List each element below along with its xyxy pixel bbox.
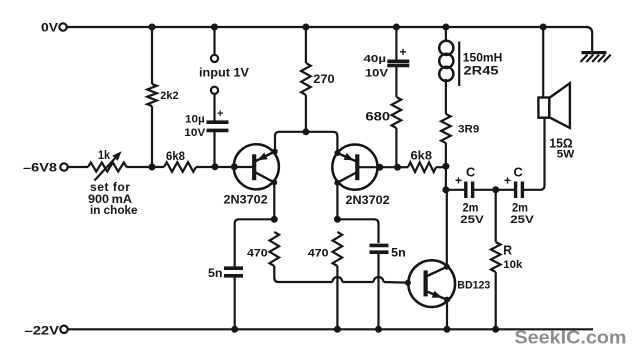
junction -22V at R5 <box>334 326 341 333</box>
wire R2 to base node <box>196 166 253 168</box>
svg-text:0V: 0V <box>41 21 58 35</box>
svg-text:2N3702: 2N3702 <box>346 193 390 207</box>
resistor R4 470 <box>270 232 280 266</box>
junction on 0V rail at choke <box>442 24 449 31</box>
wire choke top <box>445 27 447 42</box>
wire R4 to feedback line <box>274 266 332 282</box>
wire 0V rail <box>67 26 589 28</box>
svg-text:2R45: 2R45 <box>464 64 499 78</box>
junction on 0V rail at 2k2 <box>149 24 156 31</box>
svg-text:input 1V: input 1V <box>199 66 250 80</box>
resistor R5 470 <box>333 232 343 266</box>
wire to C6 <box>446 189 465 191</box>
capacitor C1 40u plates <box>387 59 409 63</box>
svg-text:BD123: BD123 <box>457 279 490 291</box>
resistor R7 6k8 <box>408 162 436 172</box>
speaker LS1 <box>538 83 570 128</box>
svg-text:270: 270 <box>313 72 335 86</box>
junction -22V at Q3 emitter <box>444 326 451 333</box>
wire C5 to -22V rail <box>377 252 379 329</box>
capacitor C5 5n plates <box>370 244 389 248</box>
wire 680 bottom <box>395 128 397 167</box>
svg-text:470: 470 <box>308 248 329 260</box>
wire mid junction to R9 <box>495 190 497 242</box>
wire input to C2 <box>213 94 215 121</box>
wire C4 to -22V rail <box>234 276 236 330</box>
resistor R3 270 <box>301 63 311 95</box>
svg-text:680: 680 <box>365 112 390 124</box>
wire rail to ground <box>586 27 592 52</box>
wire node to 5n right corner <box>337 219 378 243</box>
wire hop over C5 <box>374 277 384 282</box>
svg-text:in choke: in choke <box>90 203 138 217</box>
svg-text:2m: 2m <box>512 203 528 215</box>
wire R7 to choke line <box>436 166 446 168</box>
svg-text:SeekIC.com: SeekIC.com <box>515 327 627 348</box>
wire choke to 3R9 <box>445 79 447 114</box>
svg-text:6k8: 6k8 <box>166 151 186 163</box>
inductor L1 coil <box>439 41 453 81</box>
wire -6V8 to pot <box>68 166 89 168</box>
junction caps line mid <box>492 186 499 193</box>
wire between hops <box>342 281 373 283</box>
svg-text:+: + <box>504 174 511 188</box>
resistor R8 3R9 <box>441 114 451 143</box>
svg-text:C: C <box>466 164 476 179</box>
wire node to 5n corner <box>235 219 275 266</box>
junction on 0V rail at input <box>211 24 218 31</box>
wire 40u top <box>395 27 397 60</box>
junction emitter bar / 270 <box>302 128 309 135</box>
wire pot to junction <box>127 166 153 168</box>
input terminal lower <box>211 87 218 94</box>
svg-text:10V: 10V <box>184 127 206 139</box>
svg-text:–6V8: –6V8 <box>23 163 58 175</box>
wire R9 to -22V rail <box>495 272 497 329</box>
transistor Q3 BD123 <box>405 260 455 307</box>
potentiometer VR1 1k <box>88 163 127 172</box>
junction C2/base node <box>212 163 219 170</box>
wire Q2 base lead <box>359 166 398 168</box>
svg-text:25V: 25V <box>460 214 484 226</box>
junction choke line / R7 <box>442 163 449 170</box>
wire R5 to -22V rail <box>336 266 338 329</box>
input terminal upper <box>211 55 218 62</box>
transistor Q1 2N3702 <box>234 144 279 189</box>
svg-text:2N3702: 2N3702 <box>224 193 268 207</box>
svg-text:R: R <box>503 244 512 258</box>
svg-text:5n: 5n <box>391 247 406 259</box>
wire 270 bottom <box>305 95 307 132</box>
wire junction to R2 <box>152 166 164 168</box>
wire C2 to base node <box>213 130 215 166</box>
wire C7 to speaker corner <box>522 118 544 190</box>
wire 270 top <box>305 27 307 63</box>
svg-text:470: 470 <box>247 248 268 260</box>
junction Q2 collector node <box>334 216 341 223</box>
wire 3R9 to caps line <box>445 143 447 190</box>
junction on 0V rail at speaker <box>540 24 547 31</box>
node -6V8 terminal <box>60 163 67 170</box>
svg-text:40µ: 40µ <box>364 53 387 65</box>
junction base at Q1 circle <box>231 163 238 170</box>
junction -22V at R9 <box>492 326 499 333</box>
junction caps line left <box>442 186 449 193</box>
junction -6V8 / 2k2 <box>149 164 156 171</box>
svg-text:10µ: 10µ <box>185 114 205 126</box>
capacitor C2 10u plates <box>207 120 229 124</box>
resistor R2 6k8 <box>164 162 196 172</box>
junction -22V at C4 <box>231 326 238 333</box>
capacitor C6 2m plates <box>464 182 467 199</box>
wire 2k2 bottom <box>151 106 153 167</box>
svg-text:2k2: 2k2 <box>160 90 178 102</box>
wire Q3 emitter down <box>446 300 448 330</box>
wire C6 to mid junction <box>473 189 515 191</box>
svg-text:–22V: –22V <box>25 324 61 338</box>
junction 680/base/6k8 <box>394 164 401 171</box>
junction on 0V rail at 40u <box>393 24 400 31</box>
node 0V terminal <box>59 23 66 30</box>
wire -22V rail <box>68 328 593 330</box>
junction on 0V rail at 270 <box>302 24 309 31</box>
capacitor C4 5n plates <box>224 266 243 270</box>
svg-text:+: + <box>455 174 462 188</box>
wire 40u to 680 <box>395 66 397 98</box>
svg-text:C: C <box>514 164 524 179</box>
junction -22V at C5 <box>375 326 382 333</box>
inductor L1 core line <box>458 42 460 87</box>
svg-text:5W: 5W <box>557 149 575 161</box>
junction Q1 collector node <box>271 216 278 223</box>
transistor Q2 2N3702 <box>332 145 377 190</box>
svg-text:10V: 10V <box>365 68 389 80</box>
resistor R6 680 <box>392 97 402 128</box>
node -22V terminal <box>60 326 67 333</box>
svg-text:25V: 25V <box>510 214 534 226</box>
resistor R9 10k <box>491 242 501 272</box>
wire junction to R7 <box>398 166 409 168</box>
svg-text:6k8: 6k8 <box>411 151 433 163</box>
resistor R1 2k2 <box>147 84 157 106</box>
svg-text:2m: 2m <box>463 203 479 215</box>
svg-text:10k: 10k <box>503 259 523 271</box>
wire 2k2 top <box>151 27 153 84</box>
wire input to rail <box>213 27 215 55</box>
ground <box>581 53 611 62</box>
svg-text:5n: 5n <box>208 268 223 280</box>
wire speaker top <box>542 27 544 98</box>
wire Q3 collector up <box>446 190 448 267</box>
wire Q2 collector down <box>336 183 338 220</box>
capacitor C7 2m plates <box>514 182 517 199</box>
junction Q2 base at circle <box>376 164 383 171</box>
svg-text:3R9: 3R9 <box>458 123 479 135</box>
pot wiper arrow <box>95 156 118 181</box>
wire emitter bar <box>275 132 337 153</box>
wire hop over R5 <box>332 277 342 282</box>
wire Q1 collector down <box>273 182 275 219</box>
svg-text:+: + <box>217 108 223 120</box>
svg-text:1k: 1k <box>98 150 111 162</box>
svg-text:+: + <box>400 45 407 59</box>
wire to Q3 base <box>384 281 407 284</box>
